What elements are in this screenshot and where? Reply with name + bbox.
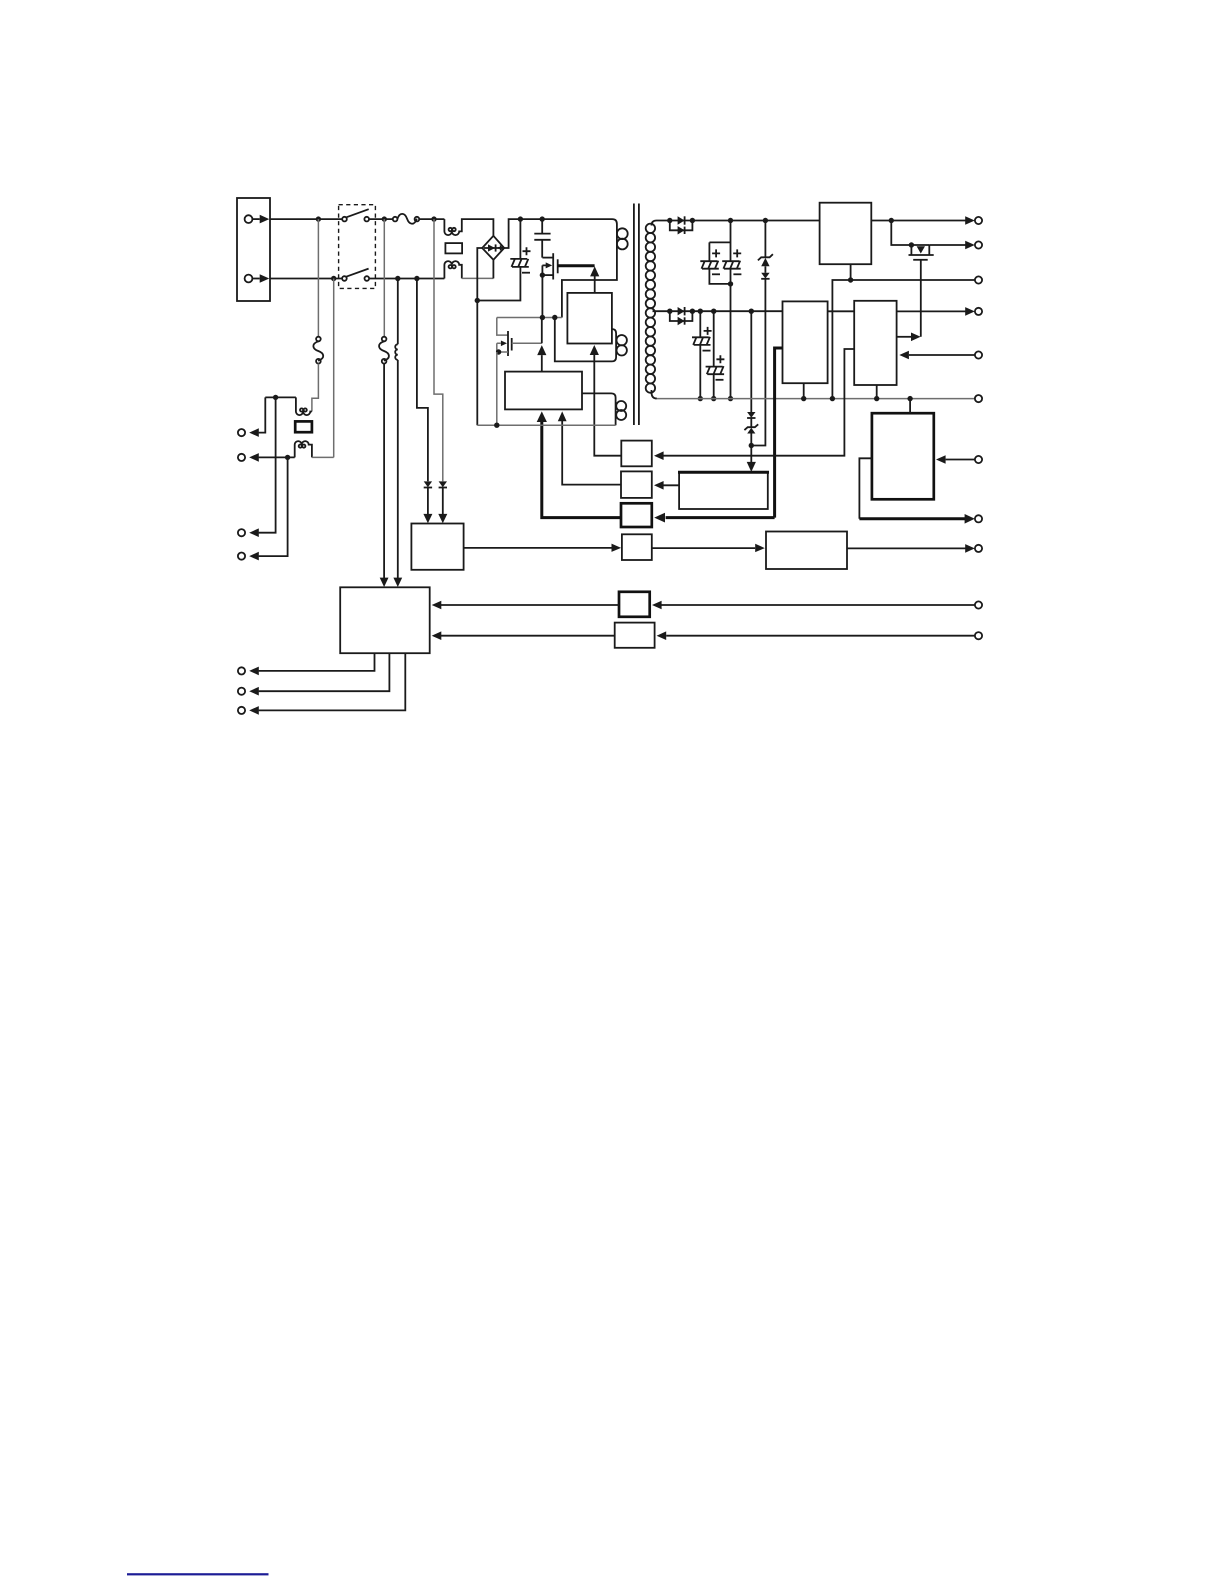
wire standby out top xyxy=(265,396,296,398)
relay block G xyxy=(766,532,847,570)
terminal left6 xyxy=(238,688,245,695)
optocoupler D xyxy=(622,534,652,560)
node ground U4 xyxy=(874,396,879,401)
wire standby neutral xyxy=(312,279,334,458)
arrow into B3 right 1 xyxy=(432,601,442,610)
wire E line xyxy=(662,604,975,606)
node caps rail xyxy=(728,396,733,401)
arrow left1 xyxy=(249,428,259,437)
node live-fuse3 xyxy=(382,216,387,221)
block F xyxy=(615,623,655,648)
zener string ZD2 xyxy=(744,311,758,445)
wire Q2 source down xyxy=(496,352,498,425)
wire fuse3 to B3 arrow xyxy=(380,364,389,588)
terminal left5 xyxy=(238,667,245,674)
transformer T1 aux winding 2 xyxy=(582,393,626,425)
node Q1 source stub xyxy=(540,272,545,277)
node neutral-degauss xyxy=(414,276,419,281)
diode D3 xyxy=(424,481,432,487)
wire D4 to B1 arrow xyxy=(438,488,447,524)
node D2 cathode xyxy=(690,309,695,314)
bulk capacitor C1 xyxy=(477,219,530,300)
wire B3 out2 xyxy=(259,653,390,691)
arrow J1-2 xyxy=(260,274,270,283)
standby transformer T2 primary xyxy=(296,397,312,415)
node zener U5 xyxy=(749,443,754,448)
wire Q1 source down xyxy=(541,275,543,317)
wire F to B3 xyxy=(434,635,615,637)
transformer T1 aux winding 1 xyxy=(555,318,627,362)
terminal left1 xyxy=(238,429,245,436)
wire Q2 gate xyxy=(512,342,542,344)
terminal left4 xyxy=(238,553,245,560)
wire xyxy=(252,278,259,280)
transformer T1 core xyxy=(634,204,639,426)
wire BR1 plus to rail xyxy=(504,219,617,317)
node C6 rail xyxy=(711,396,716,401)
node caps branch top xyxy=(728,218,733,223)
wire xyxy=(369,278,444,280)
arrow left3 xyxy=(249,528,259,537)
wire B2 out thick xyxy=(859,514,974,524)
wire thick to optocoupler C xyxy=(654,513,774,523)
arrow left4 xyxy=(249,552,259,561)
node rail Q1 xyxy=(540,315,545,320)
wire secondary mid line xyxy=(670,310,783,312)
node Q3 xyxy=(909,242,914,247)
regulator block U4 xyxy=(854,301,896,385)
arrow left7 xyxy=(249,706,259,715)
switch enclosure dashed box xyxy=(339,205,376,289)
terminal out6 xyxy=(975,545,982,552)
node film cap top xyxy=(540,216,545,221)
wire xyxy=(492,260,494,279)
node live-degauss xyxy=(431,216,436,221)
arrow into B3 right 2 xyxy=(432,631,442,640)
wire live rail xyxy=(270,218,342,220)
node ground B2 xyxy=(907,396,912,401)
wire B3 out3 xyxy=(259,653,406,710)
PWM controller U1 xyxy=(567,293,612,344)
wire U2 in thin arrow xyxy=(558,411,621,484)
micro block B3 xyxy=(340,587,430,653)
arrow out4 xyxy=(965,307,975,316)
arrow into opto A xyxy=(654,451,664,460)
wire U3 ground stub xyxy=(803,383,805,398)
node C6 top xyxy=(711,309,716,314)
wire U4 ground stub xyxy=(876,385,878,399)
transformer T1 secondary winding xyxy=(646,221,670,399)
wire xyxy=(369,218,393,220)
protection block B2 xyxy=(872,413,934,499)
wire U4 gate drive xyxy=(897,333,921,342)
zener string ZD1 xyxy=(751,221,773,446)
wire BR1 minus stub xyxy=(477,248,482,301)
optocoupler A xyxy=(621,441,652,467)
wire B2 ground stub xyxy=(909,399,911,414)
optocoupler C xyxy=(621,503,652,527)
wire primary minus down xyxy=(476,301,478,426)
regulator block REG1 xyxy=(820,203,872,265)
node Q2 source stub xyxy=(496,349,501,354)
wire U4 sense in xyxy=(899,351,975,360)
arrow left2 xyxy=(249,453,259,462)
arrow left6 xyxy=(249,687,259,696)
wire REG1 out xyxy=(871,220,965,222)
wire U5 top edge thick xyxy=(678,471,769,474)
node caps branch bottom xyxy=(728,281,733,286)
fuse F2 xyxy=(313,337,323,364)
wire U2 in thick arrow xyxy=(537,411,621,517)
terminal out3 xyxy=(975,276,982,283)
arrow J1-1 xyxy=(260,215,270,224)
node neutral-standby xyxy=(331,276,336,281)
terminal left2 xyxy=(238,454,245,461)
terminal circle J1-1 xyxy=(245,215,253,223)
error amp block U5 xyxy=(679,472,768,509)
capacitor C5 xyxy=(692,311,712,398)
wire U4 to opto A feedback xyxy=(663,349,854,456)
terminal in3 xyxy=(975,601,982,608)
terminal left7 xyxy=(238,707,245,714)
terminal in4 xyxy=(975,632,982,639)
fuse F3 xyxy=(379,337,389,364)
wire secondary ground rail xyxy=(657,398,975,400)
dual diode D2 xyxy=(670,307,693,325)
switch S1b xyxy=(342,269,369,281)
node zener2 top xyxy=(749,309,754,314)
wire bridge ac bottom xyxy=(462,277,494,279)
wire Q3 out xyxy=(929,244,965,246)
standby transformer T2 core xyxy=(295,421,312,432)
fuse F1 xyxy=(393,214,419,224)
regulator block U3 xyxy=(783,301,828,383)
node C5 rail xyxy=(698,396,703,401)
wire G out xyxy=(847,544,975,553)
node live-standby xyxy=(316,216,321,221)
MOSFET Q3 xyxy=(891,221,933,337)
wire standby live drop xyxy=(317,219,319,337)
MOSFET Q2 xyxy=(497,318,512,357)
wire secondary top line xyxy=(670,220,820,222)
wire standby out4 xyxy=(259,457,288,556)
wire xyxy=(252,218,259,220)
wire vreg feedback down xyxy=(775,348,783,518)
node rail aux1 xyxy=(552,315,557,320)
line filter choke L1 top winding xyxy=(444,219,493,236)
arrow into E xyxy=(652,601,662,610)
terminal out5 xyxy=(975,515,982,522)
footer rule xyxy=(127,1573,269,1575)
node standby out2 xyxy=(285,455,290,460)
block E xyxy=(619,592,650,617)
wire U1 drive arrow up xyxy=(590,266,599,293)
wire xyxy=(419,218,444,220)
wire fuse3 drop xyxy=(383,219,385,337)
terminal ground xyxy=(975,395,982,402)
terminal out2 xyxy=(975,241,982,248)
wire D3 to B1 arrow xyxy=(423,488,432,524)
wire standby out1 xyxy=(259,397,266,432)
wire U2 gate drive arrow xyxy=(537,318,546,372)
wire opto D out xyxy=(652,544,765,552)
wire zener to U5 arrow xyxy=(747,446,756,472)
node neutral-coil xyxy=(395,276,400,281)
wire U5 to opto B xyxy=(654,481,679,490)
degauss block B1 xyxy=(411,524,463,570)
wire E to B3 xyxy=(434,604,619,606)
wire coil to B3 arrow xyxy=(393,360,402,587)
wire B3 out1 xyxy=(259,653,375,671)
node bulk cap top xyxy=(518,216,523,221)
wire switched node rail xyxy=(497,317,562,319)
node ground reg xyxy=(830,396,835,401)
wire REG1 bottom xyxy=(832,264,975,398)
capacitor C4 xyxy=(722,221,741,399)
wire standby live lower xyxy=(312,364,319,412)
terminal out1 xyxy=(975,217,982,224)
input connector J1 xyxy=(237,198,270,301)
node D1 cathode xyxy=(690,218,695,223)
capacitor C6 xyxy=(706,311,725,398)
terminal in1 xyxy=(975,351,982,358)
wire U4 out xyxy=(897,310,966,312)
node primary minus xyxy=(475,298,480,303)
node REG1 bottom xyxy=(848,277,853,282)
switch S1a xyxy=(342,209,369,221)
node ground U3 xyxy=(801,396,806,401)
arrow out1 xyxy=(965,216,975,225)
wire U3 to U4 xyxy=(828,310,855,312)
wire F line xyxy=(666,635,975,637)
arrow out2 xyxy=(965,241,975,250)
film capacitor C2 xyxy=(534,219,550,258)
line filter choke L1 bottom winding xyxy=(444,261,461,278)
node aux2 q2 xyxy=(494,423,499,428)
transformer T1 primary winding xyxy=(617,228,628,249)
wire Q1 gate thick xyxy=(558,264,595,267)
wire standby out2 xyxy=(259,456,295,458)
wire aux2 return xyxy=(477,424,615,426)
wire degauss line 1 xyxy=(417,279,428,482)
diode D4 xyxy=(439,481,447,487)
bridge rectifier BR1 xyxy=(482,236,504,260)
line filter choke L1 core box xyxy=(445,243,462,253)
wire B2 left loop xyxy=(859,458,872,519)
terminal out4 xyxy=(975,308,982,315)
terminal in2 xyxy=(975,456,982,463)
capacitor C3 xyxy=(700,242,730,284)
wire U1 feedback arrow up xyxy=(590,345,622,456)
node standby tap xyxy=(273,395,278,400)
arrow left5 xyxy=(249,667,259,676)
MOSFET Q1 xyxy=(542,253,557,279)
node C5 top xyxy=(698,309,703,314)
arrow into F xyxy=(657,631,667,640)
node D2 anode xyxy=(667,309,672,314)
wire opto D in xyxy=(464,544,621,552)
wire neutral rail xyxy=(270,278,342,280)
control IC U2 xyxy=(505,372,582,410)
wire secondary tap xyxy=(653,310,670,312)
coil L2 xyxy=(395,344,398,360)
optocoupler B xyxy=(621,471,652,498)
node D1 anode xyxy=(667,218,672,223)
standby transformer T2 secondary xyxy=(295,441,312,457)
wire degauss line 2 xyxy=(434,219,443,481)
node zener branch top xyxy=(763,218,768,223)
wire B2 in xyxy=(936,455,975,464)
terminal left3 xyxy=(238,529,245,536)
terminal circle J1-2 xyxy=(245,275,253,283)
wire standby out3 xyxy=(259,397,276,532)
node REG1 out xyxy=(889,218,894,223)
dual diode D1 xyxy=(670,216,693,234)
wire coil drop xyxy=(397,279,399,345)
